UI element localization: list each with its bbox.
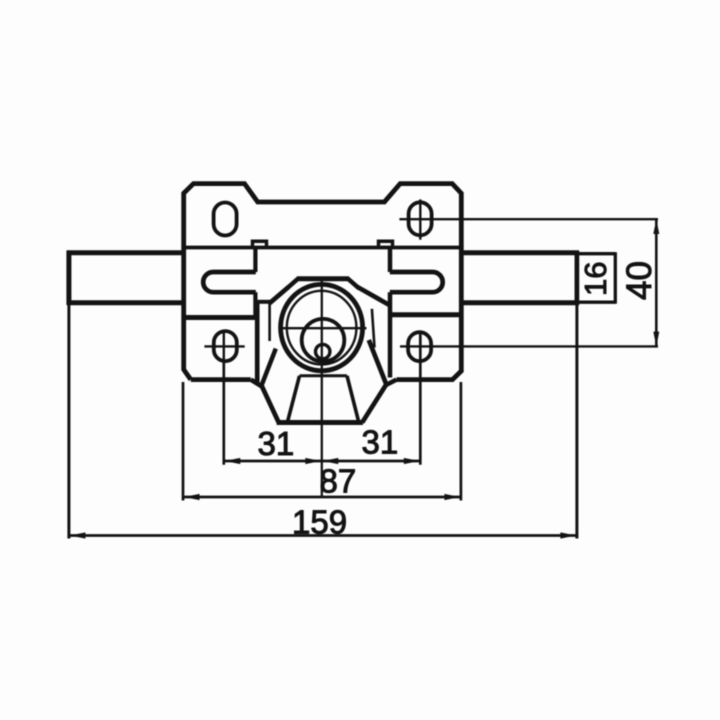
- cylinder plug: [302, 319, 345, 362]
- screw hole bottom-right: [408, 332, 431, 361]
- cylinder ring outer: [281, 284, 363, 370]
- dim 31 arrow far-left: [225, 458, 241, 464]
- svg-text:87: 87: [320, 463, 357, 500]
- screw hole top-right: [409, 202, 432, 235]
- dim 159 line: [69, 534, 577, 537]
- plate bottom-left edge: [191, 377, 251, 382]
- svg-text:16: 16: [578, 262, 613, 296]
- svg-text:31: 31: [258, 425, 295, 462]
- svg-text:31: 31: [362, 424, 399, 461]
- skirt bottom edge: [277, 420, 363, 425]
- skirt face right edge: [347, 376, 359, 422]
- skirt face left edge: [288, 376, 300, 422]
- dim 16 box bottom line: [579, 301, 615, 304]
- cylinder crosshair vertical / center extension line: [321, 278, 323, 498]
- dim 40 arrow top: [653, 219, 659, 234]
- centerline bottom-left hole horizontal: [204, 345, 244, 347]
- dim 40 extension vertical: [655, 219, 658, 346]
- lock case right edge: [388, 249, 393, 378]
- housing top-left chamfer: [287, 278, 298, 288]
- skirt right outer edge: [362, 384, 386, 422]
- left ear top edge: [256, 300, 271, 304]
- plate mid ledge right: [390, 312, 461, 317]
- svg-text:159: 159: [292, 504, 347, 541]
- housing top-right chamfer: [348, 278, 359, 288]
- dim 159 arrow left: [70, 532, 86, 538]
- housing top edge: [297, 276, 349, 281]
- right tab: [379, 241, 393, 248]
- lock case left edge: [253, 249, 257, 317]
- dim 87 arrow right: [444, 494, 460, 500]
- dim 87 arrow left: [184, 494, 200, 500]
- centerline bottom-right hole horizontal: [400, 345, 658, 347]
- housing left diagonal: [270, 287, 289, 303]
- centerline bottom-left hole vertical: [223, 332, 225, 363]
- skirt right corner connector: [387, 380, 397, 385]
- dim 159 arrow right: [560, 532, 576, 538]
- cylinder ring inner: [287, 291, 357, 365]
- dim 31 extension left: [222, 363, 225, 465]
- plate mid ledge left: [184, 315, 256, 320]
- dim 31 line: [224, 460, 420, 463]
- dim 16 box top line: [579, 252, 615, 255]
- right slot: [390, 272, 443, 292]
- keyhole circle: [316, 344, 330, 358]
- dim 87 extension right: [460, 382, 463, 501]
- left ear inner facet line: [268, 304, 271, 342]
- skirt face top edge: [300, 374, 348, 377]
- dim 40 arrow bottom: [653, 332, 659, 347]
- dim 159 extension right: [575, 305, 578, 539]
- dim 31 arrow far-right: [404, 458, 420, 464]
- dim 31 extension right: [419, 333, 422, 465]
- bolt bar left segment: [67, 251, 184, 305]
- dim 87 line: [183, 496, 461, 499]
- bolt bar right segment: [460, 251, 579, 305]
- skirt left upper diagonal: [261, 349, 276, 386]
- skirt left outer edge: [251, 380, 279, 423]
- right ear inner facet line: [372, 309, 375, 348]
- dim 16 box right line: [614, 252, 617, 304]
- cylinder crosshair horizontal: [282, 327, 367, 329]
- left ear outer edge: [255, 302, 260, 382]
- lock case top edge line: [184, 246, 460, 250]
- housing right diagonal: [358, 287, 391, 306]
- dim 31 arrows center pair: [305, 458, 321, 464]
- mounting plate outline: [184, 184, 462, 380]
- centerline top-right hole horizontal: [399, 218, 658, 220]
- screw hole bottom-left: [214, 331, 237, 361]
- skirt right upper diagonal: [369, 340, 387, 384]
- left tab: [253, 241, 267, 248]
- dim 87 extension left: [182, 382, 185, 501]
- svg-text:40: 40: [620, 261, 659, 300]
- dim 159 extension left: [67, 305, 70, 539]
- left slot: [203, 272, 256, 292]
- screw hole top-left: [214, 203, 237, 236]
- centerline top-right hole vertical: [419, 199, 421, 239]
